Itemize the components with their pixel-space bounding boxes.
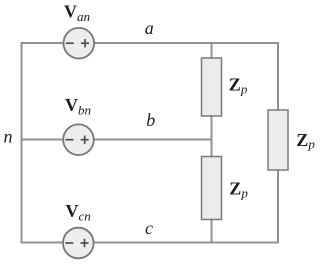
wire top horizontal (phase a) — [21, 42, 279, 44]
wire right vertical rail (a-c branch) — [277, 43, 279, 243]
impedance Zp box (between b and c) — [202, 157, 222, 220]
svg-text:n: n — [4, 127, 13, 147]
voltage source Van — [64, 28, 95, 59]
svg-text:a: a — [145, 18, 154, 38]
wire middle horizontal (phase b) — [22, 139, 213, 141]
svg-text:c: c — [145, 218, 153, 238]
svg-text:b: b — [146, 110, 155, 130]
voltage source Vbn — [63, 124, 94, 155]
wire middle vertical rail (a-b-c branch) — [211, 43, 213, 243]
impedance Zp box (between a and c, right branch) — [268, 110, 288, 170]
impedance Zp box (between a and b) — [202, 58, 222, 116]
voltage source Vcn — [63, 228, 94, 259]
wire left vertical (neutral rail n) — [21, 43, 23, 243]
wire bottom horizontal (phase c) — [21, 242, 279, 244]
